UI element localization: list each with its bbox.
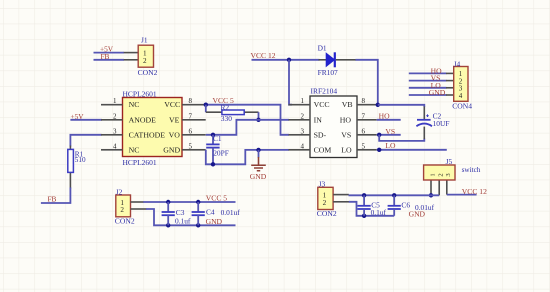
designator J5 [446,157,453,166]
svg-text:FB: FB [101,52,110,61]
value switch (J5) [462,166,481,174]
resistor R1 [68,146,74,189]
svg-text:6: 6 [189,127,193,135]
svg-text:2: 2 [323,199,327,207]
wire HCPL2601 pin 3 to R1 top [70,135,101,147]
junction GND symbol tap [256,148,260,152]
svg-text:1: 1 [301,97,305,105]
svg-text:0.1uf: 0.1uf [371,208,387,217]
pin number 3 (IRF2104) [301,127,305,135]
power label GND (C6) [409,209,426,218]
wire J3 pin2 to bottom gnd rail [349,202,394,216]
pin name VS (IRF2104) [341,130,351,139]
net label HO (IRF) [379,111,390,120]
svg-text:SD-: SD- [314,130,327,139]
svg-text:510: 510 [75,156,86,164]
net label VCC 5 (pull-up) [213,96,235,105]
junction VS / C2 bottom branch [377,133,381,137]
svg-text:NC: NC [129,145,140,154]
junction C3 bottom [166,223,170,227]
svg-text:3: 3 [113,127,117,135]
power label GND [250,172,267,181]
ground symbol GND [251,150,266,171]
svg-text:HCPL2601: HCPL2601 [123,158,157,167]
pin number 4 (IRF2104) [301,142,305,150]
wire HO to J4 pin 1 [409,72,447,74]
svg-text:330: 330 [221,114,232,123]
svg-text:CON2: CON2 [317,209,337,218]
net label VCC 5 (J2 rail) [206,194,228,203]
resistor R2 [206,105,259,120]
svg-text:0.01uf: 0.01uf [221,208,241,217]
svg-text:2: 2 [113,112,117,120]
pin name SD- (IRF2104) [314,130,327,139]
power label GND (C4) [206,217,223,226]
svg-text:1: 1 [429,173,436,176]
designator D1 [318,43,327,52]
net label VS (J4) [431,74,441,83]
pin number 6 (HCPL2601) [189,127,193,135]
pin name IN (IRF2104) [314,115,323,124]
wire VS net from IRF pin 6 [377,134,401,136]
svg-text:GND: GND [250,172,267,181]
svg-text:COM: COM [314,145,332,154]
svg-text:4: 4 [301,142,305,150]
svg-text:C1: C1 [213,134,222,143]
designator R1 [75,150,84,158]
junction C4 top [196,200,200,204]
designator C4 [206,208,215,217]
wire VCC12 net to diode D1 anode [252,59,320,61]
value HCPL2601 (bottom) [123,158,157,167]
svg-text:CATHODE: CATHODE [129,130,166,139]
wire FB to J1 pin 2 [94,59,125,61]
connector J3 CON2 [318,187,349,209]
svg-text:2: 2 [143,57,147,65]
svg-text:C4: C4 [206,208,215,217]
value 0.01uf (C6) [415,203,435,212]
svg-text:2: 2 [120,206,124,214]
value FR107 (D1) [318,68,338,77]
svg-text:VE: VE [169,115,180,124]
svg-text:switch: switch [462,166,481,174]
junction at HCPL pin 8 / R2 tap [204,103,208,107]
svg-text:IN: IN [314,115,323,124]
pin number 2 (IRF2104) [301,112,305,120]
net label +5V (opto anode) [71,112,85,121]
net label VS (IRF) [385,127,395,136]
pin number 8 (IRF2104) [362,97,366,105]
pin number 2 (HCPL2601) [113,112,117,120]
value 0.1uf (C5) [371,208,387,217]
wire GND net: HCPL pin5 to IRF2104 pin4 COM [206,150,289,165]
svg-text:FR107: FR107 [318,68,338,77]
junction IRF pin8 VB / C2 branch [376,103,380,107]
designator C3 [176,208,185,217]
wire +5V to HCPL2601 pin 2 [70,119,102,121]
pin name COM (IRF2104) [314,145,332,154]
designator J4 [454,59,461,68]
svg-text:GND: GND [429,88,446,97]
svg-text:J5: J5 [446,157,453,166]
designator C6 [401,201,410,210]
switch J5 [424,165,455,195]
wire LO to J4 pin 3 [409,87,447,89]
pin name GND (HCPL2601) [163,145,180,154]
svg-text:LO: LO [385,141,396,150]
net label GND (J4) [429,88,446,97]
value CON2 (J2) [115,217,135,226]
junction C4 bottom [196,223,200,227]
svg-text:HCPL2601: HCPL2601 [123,90,157,99]
svg-text:2: 2 [438,173,445,176]
pin name VE (HCPL2601) [169,115,180,124]
diode D1 FR107 [319,52,357,67]
svg-text:LO: LO [341,145,352,154]
svg-text:J3: J3 [319,179,326,188]
designator C5 [371,201,380,210]
wire +5V to J1 pin 1 [94,52,125,54]
svg-text:20PF: 20PF [213,149,229,158]
value CON2 (J1) [138,68,158,77]
net label FB (J1) [101,52,110,61]
svg-text:8: 8 [189,97,193,105]
svg-text:4: 4 [113,142,117,150]
pin name VCC (HCPL2601) [164,100,180,109]
designator HCPL2601 (top) [123,90,157,99]
pin number 5 (HCPL2601) [189,142,193,150]
svg-text:ANODE: ANODE [129,115,157,124]
svg-text:2: 2 [301,112,305,120]
wire HO net from IRF pin 7 [377,119,401,121]
svg-text:4: 4 [459,92,463,100]
junction VCC12 drop to IRF2104 pin1 [287,58,291,62]
value CON2 (J3) [317,209,337,218]
junction C6 top [392,193,396,197]
wire D1 cathode to IRF2104 pin 8 VB [356,60,378,105]
junction R2 bottom on VO net [256,118,260,122]
svg-text:J4: J4 [454,59,461,68]
pin number 4 (HCPL2601) [113,142,117,150]
wire C2 bottom to VS net [379,127,424,141]
junction C1 bottom on GND net [211,162,215,166]
svg-text:VB: VB [342,100,353,109]
pin number 7 (IRF2104) [362,112,366,120]
svg-text:J1: J1 [141,35,148,44]
svg-text:CON2: CON2 [138,68,158,77]
wire R1 bottom to FB [41,188,71,204]
pin name HO (IRF2104) [340,115,352,124]
net label LO (IRF) [385,141,396,150]
junction C5 top [362,193,366,197]
svg-text:J2: J2 [116,187,123,196]
designator R2 [221,103,230,112]
pin number 6 (IRF2104) [362,127,366,135]
value 0.1uf (C3) [175,216,191,225]
wire GND to J4 pin 4 [409,94,447,96]
svg-text:D1: D1 [318,43,327,52]
svg-text:C6: C6 [401,201,410,210]
capacitor C2 polarized [416,114,432,126]
wire J2 pin2 to gnd rail [146,209,236,225]
pin number 7 (HCPL2601) [189,112,193,120]
capacitor C1 [206,135,219,165]
pin name VB (IRF2104) [342,100,353,109]
svg-text:HO: HO [379,111,390,120]
svg-text:7: 7 [189,112,193,120]
svg-text:5: 5 [362,142,366,150]
wire LO net from IRF pin 5 [377,149,447,151]
pin name NC bottom (HCPL2601) [129,145,140,154]
svg-text:CON4: CON4 [452,102,472,111]
connector J4 CON4 [446,67,468,102]
svg-text:VCC: VCC [164,100,180,109]
junction C1 top on VO net [211,133,215,137]
designator IRF2104 [311,87,338,96]
connector J2 CON2 [116,195,147,217]
svg-text:VCC 12: VCC 12 [462,187,487,196]
svg-text:NC: NC [129,100,140,109]
net label VCC 12 (J5) [462,187,487,196]
net label HO (J4) [431,66,442,75]
wire VCC5 rail from J2 pin 1 [143,201,235,203]
value 20PF (C1) [213,149,229,158]
designator J2 [116,187,123,196]
wire VB net to C2 top [378,105,425,119]
net label +5V (J1) [100,44,114,53]
value 510 (R1) [75,156,86,164]
designator C2 [433,112,442,121]
junction C3 top [166,200,170,204]
pin number 1 (HCPL2601) [113,97,117,105]
net label FB (R1) [48,195,57,204]
svg-text:VCC 12: VCC 12 [251,51,276,60]
wire VCC5 net: HCPL pin8 to IRF2104 pin3 SD- [206,105,289,135]
svg-text:IRF2104: IRF2104 [311,87,338,96]
pin name NC top (HCPL2601) [129,100,140,109]
net label LO (J4) [431,81,442,90]
value 10UF (C2) [433,119,450,128]
pin name ANODE (HCPL2601) [129,115,157,124]
designator C1 [213,134,222,143]
svg-text:GND: GND [409,209,426,218]
gate driver U IRF2104 [289,96,377,158]
svg-text:FB: FB [48,195,57,204]
junction J5 pin1 on 12V rail [429,193,433,197]
svg-text:VO: VO [169,130,181,139]
svg-text:1: 1 [113,97,117,105]
value 330 (R2) [221,114,232,123]
net label VCC 12 (top) [251,51,276,60]
junction C5 bottom [362,214,366,218]
designator J3 [319,179,326,188]
op-coupler U HCPL2601 [101,98,206,157]
wire VO net: HCPL pin6 to IRF2104 pin2 IN [206,120,289,135]
svg-text:3: 3 [301,127,305,135]
wire 12V rail J3 pin1 to J5 [349,194,440,196]
pin number 1 (IRF2104) [301,97,305,105]
pin number 8 (HCPL2601) [189,97,193,105]
svg-text:GND: GND [163,145,180,154]
svg-text:GND: GND [206,217,223,226]
svg-text:10UF: 10UF [433,119,450,128]
pin number 5 (IRF2104) [362,142,366,150]
svg-text:CON2: CON2 [115,217,135,226]
wire J5 pin3 to VCC 12 [447,194,477,196]
svg-text:VS: VS [385,127,395,136]
value CON4 (J4) [452,102,472,111]
svg-text:VCC 5: VCC 5 [206,194,228,203]
junction on LO wire at pin 5 [377,148,381,152]
pin name LO (IRF2104) [341,145,352,154]
connector J1 CON2 [124,45,154,67]
wire VS to J4 pin 2 [409,80,447,82]
svg-text:VCC: VCC [314,100,330,109]
capacitor C3 [162,202,175,225]
svg-text:6: 6 [362,127,366,135]
pin number 3 (HCPL2601) [113,127,117,135]
pin name VCC (IRF2104) [314,100,330,109]
capacitor C4 [192,202,205,225]
pin name CATHODE (HCPL2601) [129,130,166,139]
svg-text:R2: R2 [221,103,230,112]
svg-text:5: 5 [189,142,193,150]
value 0.01uf (C4) [221,208,241,217]
svg-text:7: 7 [362,112,366,120]
capacitor C6 [388,195,401,216]
capacitor C5 [358,195,371,216]
svg-text:0.1uf: 0.1uf [175,216,191,225]
wire VCC12 to IRF2104 pin 1 VCC [289,60,292,105]
designator J1 [141,35,148,44]
svg-text:8: 8 [362,97,366,105]
pin name VO (HCPL2601) [169,130,181,139]
svg-text:VS: VS [341,130,351,139]
svg-text:HO: HO [340,115,352,124]
